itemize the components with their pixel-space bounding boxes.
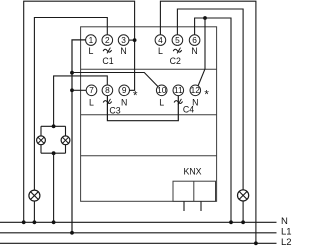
node: L1 riser junction to terminal 7 bbox=[70, 88, 74, 92]
wire: parallel link terminal 8 to terminal 11 bbox=[107, 96, 178, 121]
KNX terminal block bbox=[173, 167, 216, 202]
svg-text:3: 3 bbox=[121, 35, 126, 45]
node: L1 riser junction to C4 feed bbox=[70, 71, 74, 75]
internal divider above KNX section bbox=[81, 155, 217, 157]
L2 rail bbox=[0, 237, 292, 248]
lamp E3 bbox=[238, 190, 249, 201]
svg-text:KNX: KNX bbox=[183, 167, 201, 177]
L1 rail bbox=[0, 227, 292, 238]
terminal 6 bbox=[189, 35, 200, 46]
symbol phase-dimmer terminal 5 bbox=[173, 48, 182, 54]
node: junction right of terminal 3 bbox=[133, 38, 137, 42]
wire: lamp E1 to N rail bbox=[33, 201, 35, 222]
svg-text:1: 1 bbox=[89, 35, 94, 45]
node: lamp group top bbox=[52, 124, 56, 128]
svg-text:*: * bbox=[204, 90, 209, 102]
KNX bus pin 2 bbox=[200, 201, 202, 211]
wire: terminal 2 output loop to lamp E1 and N rail bbox=[34, 18, 107, 191]
node: N loop on N rail bbox=[229, 220, 233, 224]
divider under C3/C4 terminal strip bbox=[81, 114, 217, 116]
symbol phase-dimmer terminal 8 bbox=[103, 99, 112, 105]
terminal 11 bbox=[173, 85, 184, 96]
terminal 4 bbox=[155, 35, 166, 46]
svg-text:L2: L2 bbox=[281, 237, 292, 248]
svg-text:C4: C4 bbox=[183, 105, 194, 115]
svg-text:C2: C2 bbox=[170, 56, 181, 66]
svg-text:8: 8 bbox=[105, 85, 110, 95]
wire: N rail to terminal 6 (inner right loop) bbox=[195, 18, 231, 222]
node: junction on N rail (outer loop) bbox=[22, 220, 26, 224]
node: lamp E3 on N rail bbox=[241, 220, 245, 224]
node: L2 riser on L2 rail bbox=[254, 241, 258, 245]
svg-text:6: 6 bbox=[192, 35, 197, 45]
terminal 9 bbox=[119, 85, 130, 96]
lamp E1 bbox=[29, 190, 40, 201]
wire: branch to terminal 12 (diagonal) bbox=[198, 18, 205, 86]
terminal 5 bbox=[172, 35, 183, 46]
svg-text:9: 9 bbox=[122, 85, 127, 95]
svg-text:C1: C1 bbox=[102, 56, 113, 66]
N rail bbox=[0, 216, 288, 227]
svg-text:L1: L1 bbox=[281, 227, 292, 238]
node: lamp group on N rail bbox=[52, 220, 56, 224]
wire: N rail to terminal 3 and terminal 9 (left outer loop) bbox=[24, 1, 135, 222]
terminal 2 bbox=[102, 35, 113, 46]
wire: L1 riser to terminal 1 bbox=[72, 40, 86, 233]
lamp group E2 parallel branch frame bbox=[41, 126, 66, 153]
node: lamp group bottom bbox=[52, 151, 56, 155]
wire: lamp group to N rail bbox=[53, 153, 55, 222]
svg-text:2: 2 bbox=[105, 35, 110, 45]
terminal 3 bbox=[118, 35, 129, 46]
lamp E2b bbox=[61, 136, 70, 145]
KNX bus pin 1 bbox=[183, 201, 185, 211]
svg-text:11: 11 bbox=[174, 85, 183, 95]
svg-text:7: 7 bbox=[89, 85, 94, 95]
symbol phase-dimmer terminal 11 bbox=[174, 99, 183, 105]
terminal 7 bbox=[86, 85, 97, 96]
device box U1 (KNX dimmer actuator) bbox=[81, 27, 217, 202]
node: L1 riser on L1 rail bbox=[70, 231, 74, 235]
svg-text:5: 5 bbox=[175, 35, 180, 45]
wire: branch to terminal 7 bbox=[72, 89, 86, 91]
terminal 8 bbox=[102, 85, 113, 96]
wire: terminal 5 output loop to lamp E3 bbox=[177, 9, 243, 190]
svg-text:N: N bbox=[121, 98, 127, 108]
svg-text:12: 12 bbox=[191, 85, 201, 95]
svg-text:L: L bbox=[89, 98, 94, 108]
symbol phase-dimmer terminal 2 bbox=[103, 48, 112, 54]
svg-text:L: L bbox=[88, 46, 93, 56]
svg-text:C3: C3 bbox=[109, 106, 120, 116]
wire: lamp E3 to N rail bbox=[242, 201, 244, 222]
terminal 10 bbox=[156, 85, 167, 96]
node: N loop junction feeding terminal 12 bbox=[203, 16, 207, 20]
terminal 1 bbox=[86, 35, 97, 46]
wire: L2 rail to terminal 4 (outer right loop) bbox=[160, 1, 256, 243]
divider under C1/C2 terminal strip bbox=[81, 68, 217, 70]
svg-text:N: N bbox=[191, 46, 197, 56]
svg-text:N: N bbox=[120, 46, 126, 56]
svg-text:L: L bbox=[158, 46, 163, 56]
wire: L1 riser branch to terminal 10 (diagonal) bbox=[72, 73, 158, 87]
svg-text:4: 4 bbox=[158, 35, 163, 45]
wire: terminal 3 to junction bbox=[129, 39, 135, 41]
node: lamp E1 wire on N rail bbox=[33, 220, 37, 224]
svg-text:L: L bbox=[159, 98, 164, 108]
lamp E2a bbox=[37, 136, 46, 145]
terminal 12 bbox=[190, 85, 201, 96]
svg-text:10: 10 bbox=[157, 85, 167, 95]
svg-text:*: * bbox=[133, 91, 138, 103]
wire: lamp group E2 to terminal 8 bbox=[54, 76, 108, 126]
